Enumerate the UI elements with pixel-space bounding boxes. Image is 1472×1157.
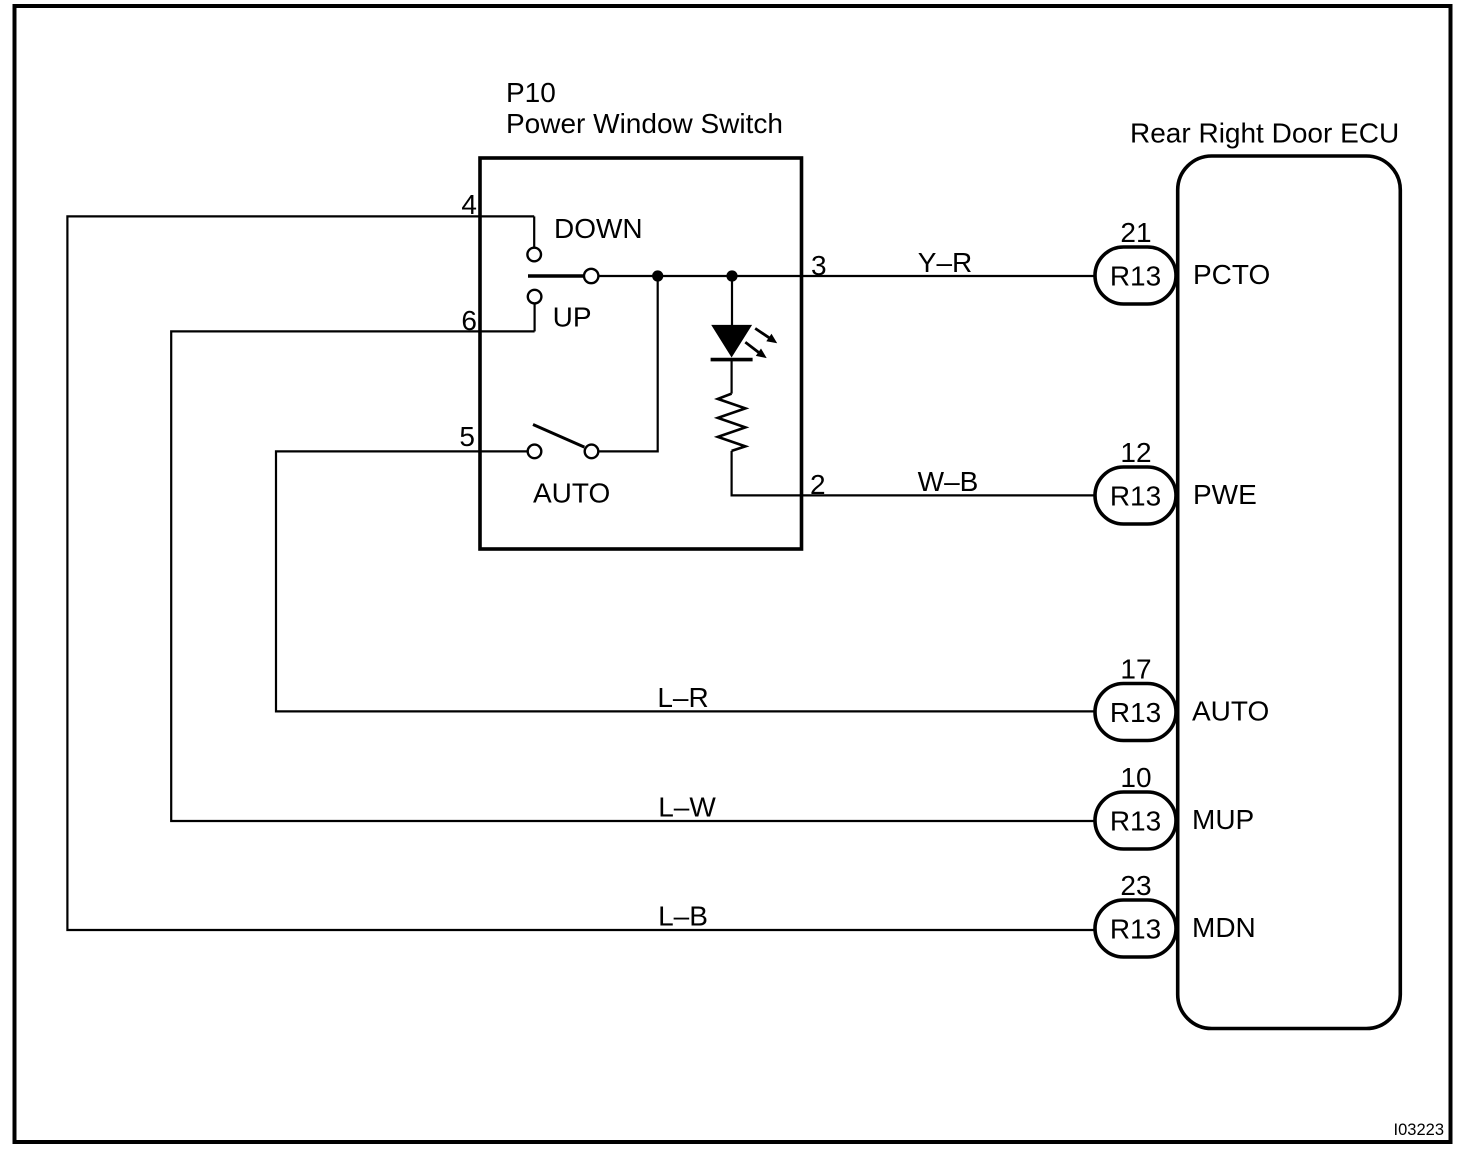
svg-text:MDN: MDN <box>1192 912 1256 943</box>
wire DOWN contact drop <box>533 216 535 247</box>
switch pole circle <box>584 269 598 283</box>
LED arrow 1 <box>755 328 777 343</box>
wire pole to pin 3 (Y-R row) <box>599 275 1095 277</box>
junction node B <box>726 270 737 281</box>
svg-text:PWE: PWE <box>1193 479 1257 510</box>
svg-text:23: 23 <box>1120 870 1151 901</box>
ECU box Rear Right Door ECU <box>1178 156 1401 1029</box>
svg-text:21: 21 <box>1120 217 1151 248</box>
svg-text:17: 17 <box>1120 654 1151 685</box>
svg-text:R13: R13 <box>1110 481 1161 512</box>
svg-text:R13: R13 <box>1110 806 1161 837</box>
wire UP contact drop <box>533 304 535 332</box>
svg-text:12: 12 <box>1120 437 1151 468</box>
LED cathode bar <box>711 358 753 362</box>
connector R13 pin 17 <box>1095 684 1176 741</box>
svg-text:10: 10 <box>1120 762 1151 793</box>
svg-text:L–W: L–W <box>658 792 716 823</box>
contact circle DOWN <box>527 248 541 262</box>
resistor <box>718 394 746 451</box>
svg-text:DOWN: DOWN <box>554 213 643 244</box>
svg-text:I03223: I03223 <box>1394 1121 1444 1139</box>
svg-text:5: 5 <box>459 421 475 452</box>
contact circle UP <box>528 290 542 304</box>
svg-text:L–R: L–R <box>657 682 708 713</box>
wire pin4 to MDN (L-B) <box>67 216 1095 930</box>
wire junction B to LED <box>731 276 733 325</box>
LED arrow 2 <box>745 342 766 358</box>
wire pin5 to AUTO (L-R) <box>276 451 1095 711</box>
connector R13 pin 23 <box>1095 900 1176 957</box>
svg-text:R13: R13 <box>1110 914 1161 945</box>
wire junction A to AUTO switch <box>599 276 658 451</box>
svg-text:Y–R: Y–R <box>918 247 972 278</box>
connector R13 pin 21 <box>1095 247 1176 304</box>
switch pole bar <box>528 274 583 278</box>
connector R13 pin 12 <box>1095 467 1176 524</box>
junction node A <box>652 270 663 281</box>
wire resistor to pin 2 (W-B row) <box>732 451 1095 496</box>
LED diode <box>712 325 751 356</box>
switch lever AUTO <box>533 425 584 448</box>
wire pin6 to MUP (L-W) <box>171 331 1095 821</box>
svg-text:P10: P10 <box>506 77 556 108</box>
svg-text:Rear Right Door ECU: Rear Right Door ECU <box>1130 118 1399 149</box>
svg-text:AUTO: AUTO <box>1192 696 1269 727</box>
svg-text:AUTO: AUTO <box>533 478 610 509</box>
contact circle AUTO right <box>585 445 599 459</box>
svg-text:R13: R13 <box>1110 261 1161 292</box>
svg-text:L–B: L–B <box>658 901 708 932</box>
contact circle AUTO left <box>528 445 542 459</box>
svg-text:MUP: MUP <box>1192 804 1254 835</box>
svg-text:R13: R13 <box>1110 697 1161 728</box>
wire LED to resistor <box>730 360 732 394</box>
svg-text:PCTO: PCTO <box>1193 259 1270 290</box>
switch box P10 <box>480 158 802 549</box>
svg-text:UP: UP <box>553 302 592 333</box>
svg-text:Power Window Switch: Power Window Switch <box>506 108 783 139</box>
svg-text:W–B: W–B <box>918 466 979 497</box>
connector R13 pin 10 <box>1095 792 1176 849</box>
